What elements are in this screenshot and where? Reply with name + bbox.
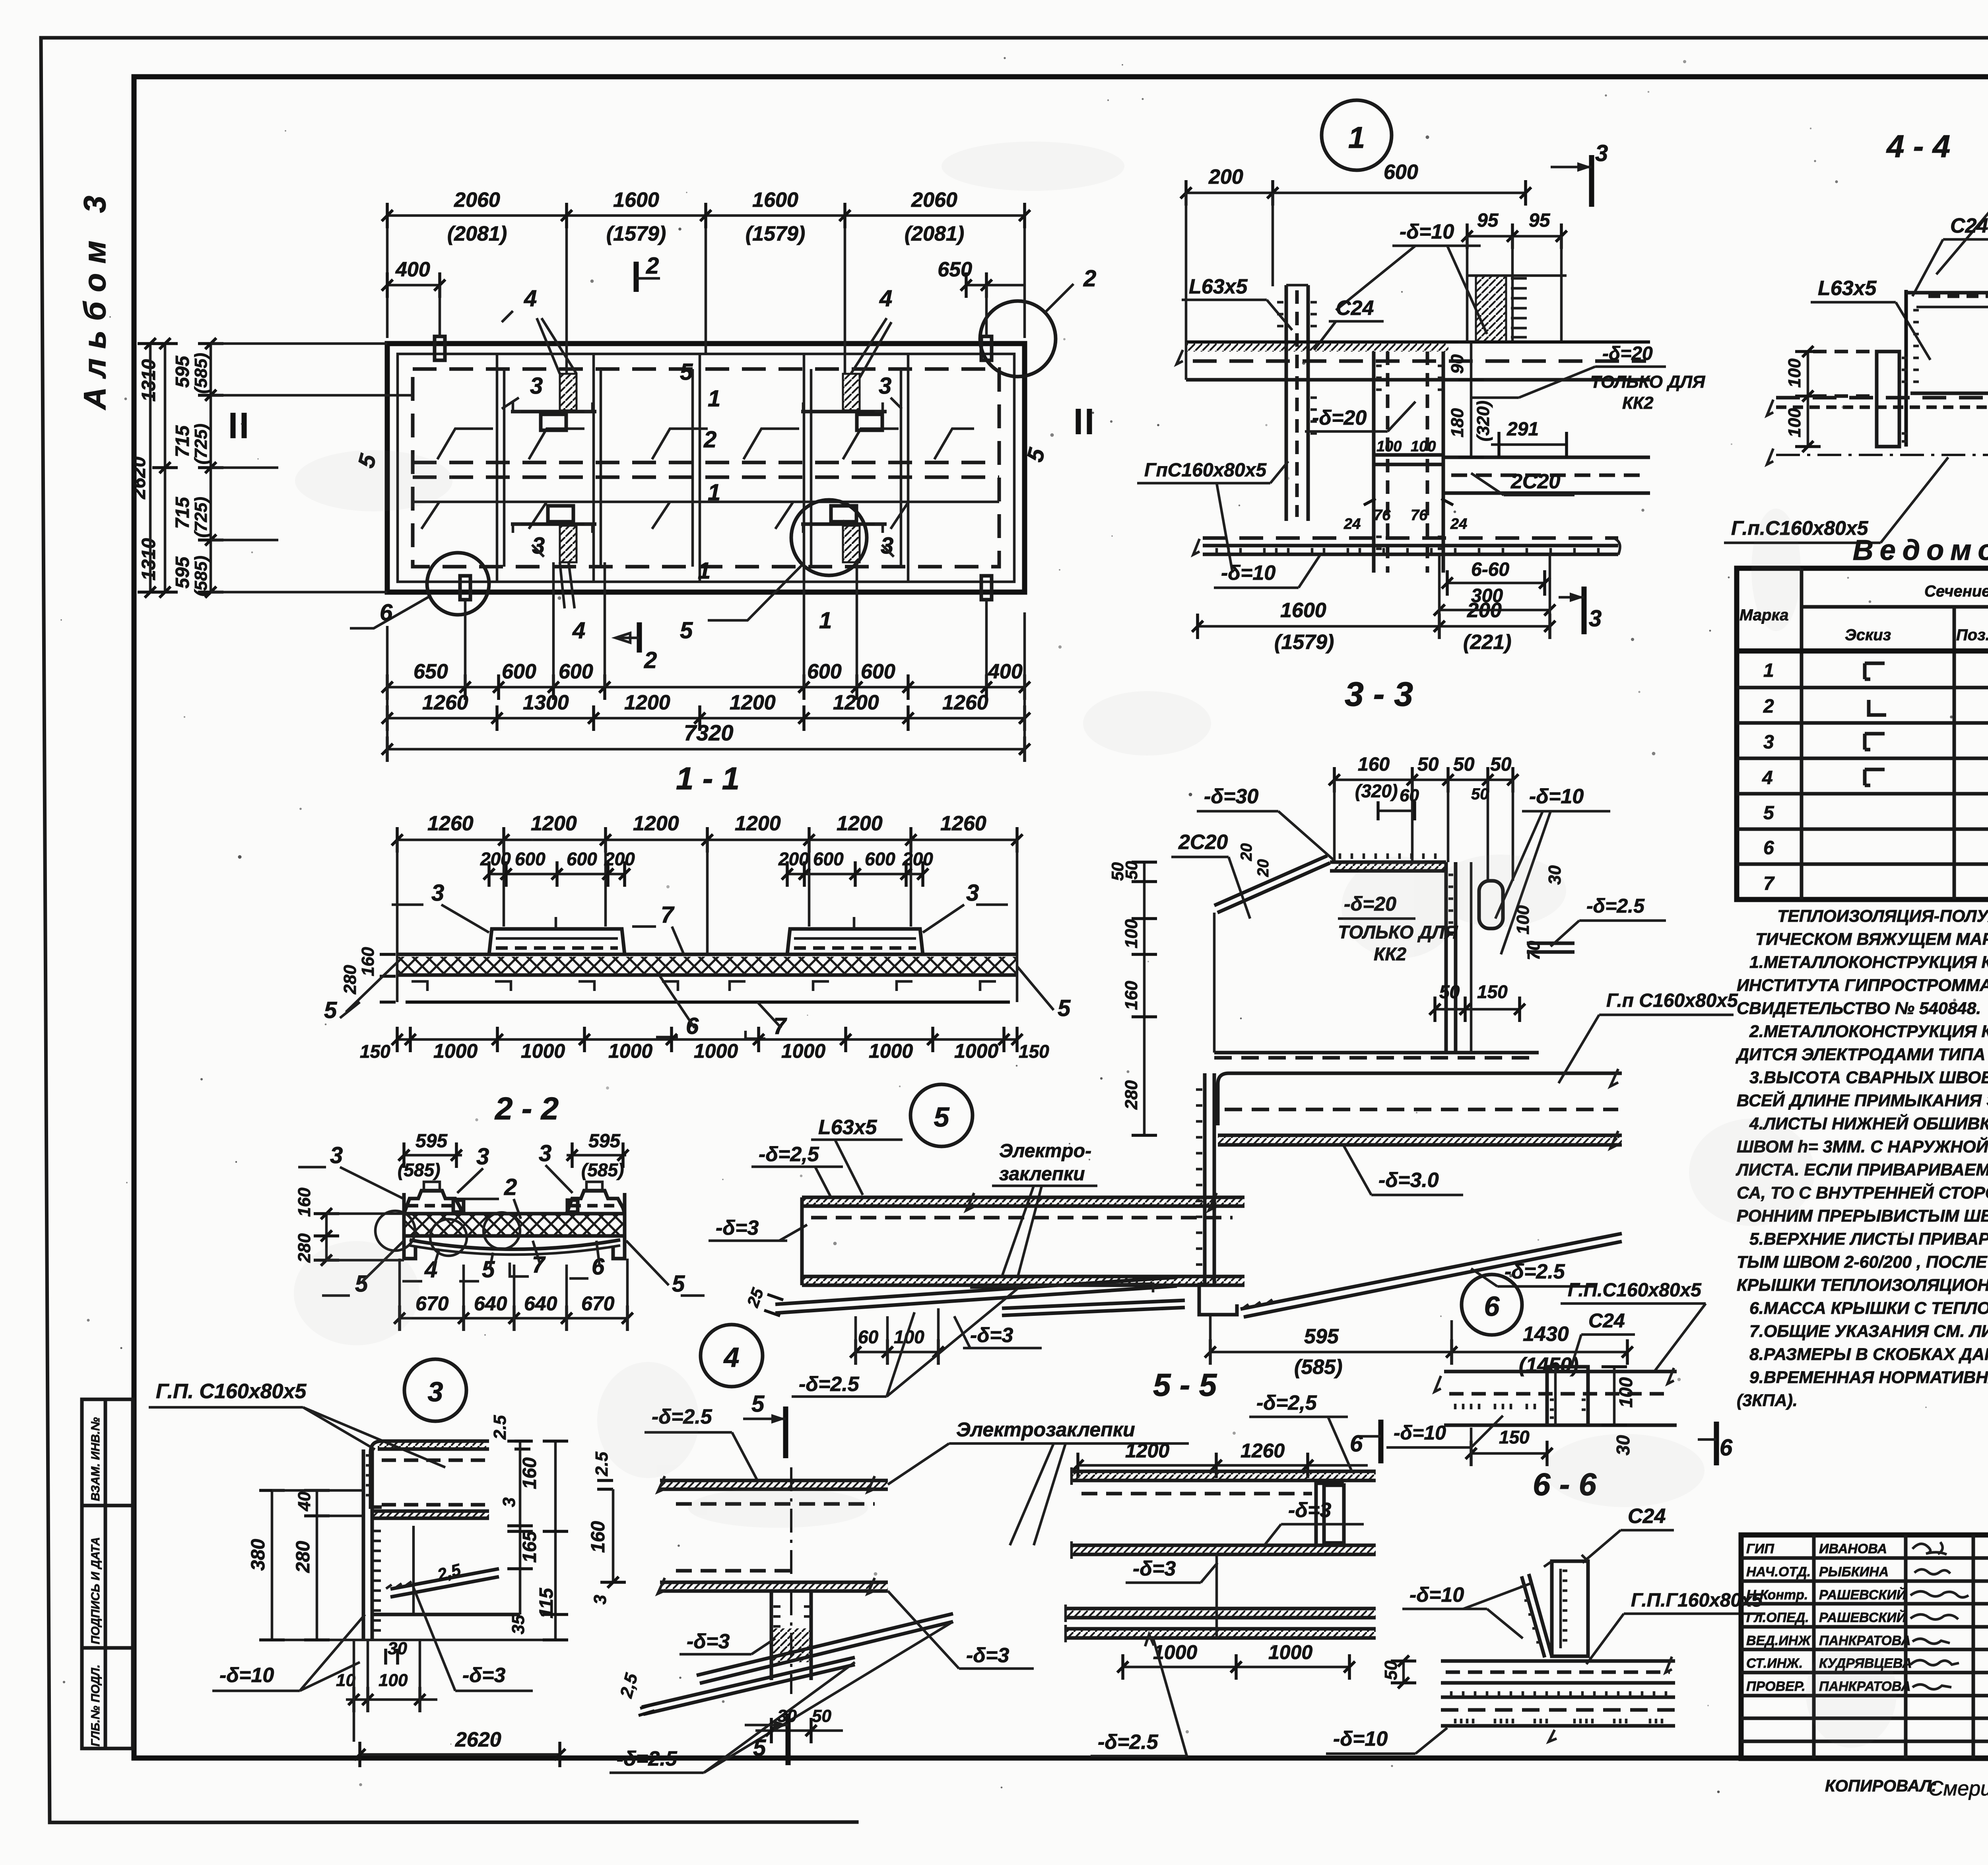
svg-text:60: 60 xyxy=(858,1327,879,1347)
svg-text:-δ=2,5: -δ=2,5 xyxy=(759,1143,819,1166)
second slanted plate xyxy=(642,1657,855,1714)
detail circle 3 xyxy=(404,1359,466,1421)
bottom dim row 1260/1200 xyxy=(382,691,1030,731)
svg-text:Поз.: Поз. xyxy=(1956,626,1988,644)
plan inner rect xyxy=(398,354,1014,582)
small right plate xyxy=(1527,943,1574,952)
horizontal band 6-6 xyxy=(1441,1657,1675,1683)
svg-text:Альбом 3: Альбом 3 xyxy=(77,186,112,410)
detail circle 4 xyxy=(701,1325,763,1387)
svg-text:РЫБКИНА: РЫБКИНА xyxy=(1819,1564,1889,1579)
svg-text:-δ=20: -δ=20 xyxy=(1312,406,1367,429)
svg-text:2: 2 xyxy=(1083,266,1096,291)
svg-text:(320): (320) xyxy=(1474,400,1493,441)
svg-text:-δ=30: -δ=30 xyxy=(1204,785,1258,808)
weld view circles xyxy=(375,1211,415,1251)
svg-text:-δ=10: -δ=10 xyxy=(1400,220,1454,243)
svg-text:L63х5: L63х5 xyxy=(1818,277,1877,300)
svg-text:600: 600 xyxy=(861,660,895,683)
svg-text:20: 20 xyxy=(1254,859,1272,878)
lower plates 5-5 xyxy=(1066,1554,1376,1642)
svg-text:-δ=10: -δ=10 xyxy=(1394,1422,1446,1444)
svg-text:160: 160 xyxy=(1358,754,1390,775)
svg-text:-δ=3: -δ=3 xyxy=(687,1630,730,1653)
svg-text:-δ=2.5: -δ=2.5 xyxy=(617,1747,678,1770)
connector assembly top-left xyxy=(511,318,596,430)
svg-text:Электрозаклепки: Электрозаклепки xyxy=(956,1418,1135,1441)
svg-text:2С20: 2С20 xyxy=(1178,831,1228,854)
svg-text:715: 715 xyxy=(172,497,193,529)
svg-text:ГпС160х80х5: ГпС160х80х5 xyxy=(1144,460,1267,481)
central column xyxy=(1343,352,1467,573)
bottom dim row 150/1000 xyxy=(360,1027,1049,1062)
svg-text:3: 3 xyxy=(476,1144,489,1170)
svg-text:100: 100 xyxy=(1376,438,1402,455)
svg-text:595: 595 xyxy=(172,356,193,388)
mid channel band xyxy=(1218,1069,1622,1148)
svg-text:95: 95 xyxy=(1477,210,1499,231)
left connector hat xyxy=(404,1182,464,1214)
right connector hat xyxy=(567,1182,625,1214)
svg-text:2: 2 xyxy=(504,1174,517,1200)
svg-text:100: 100 xyxy=(1785,358,1804,388)
bottom dims 670/640/640/670 xyxy=(394,1259,633,1331)
svg-text:100: 100 xyxy=(1615,1377,1636,1408)
svg-text:(1579): (1579) xyxy=(745,222,805,245)
svg-text:-δ=3.0: -δ=3.0 xyxy=(1378,1169,1439,1192)
vertical web plate xyxy=(363,1449,381,1640)
svg-text:-δ=2.5: -δ=2.5 xyxy=(1098,1731,1159,1754)
slanted bottom plate xyxy=(775,1277,1177,1313)
top plate xyxy=(658,1476,888,1504)
svg-text:2: 2 xyxy=(644,647,657,673)
svg-text:6-60: 6-60 xyxy=(1471,559,1509,580)
svg-text:200: 200 xyxy=(778,849,809,869)
svg-text:50: 50 xyxy=(1108,862,1127,881)
svg-text:24: 24 xyxy=(1343,516,1361,532)
plan lower chord line xyxy=(413,501,999,503)
svg-text:1: 1 xyxy=(1763,660,1774,681)
svg-text:5: 5 xyxy=(324,997,337,1023)
top band xyxy=(1176,342,1650,380)
svg-text:50: 50 xyxy=(812,1706,831,1726)
svg-text:2 - 2: 2 - 2 xyxy=(494,1091,559,1126)
svg-text:291: 291 xyxy=(1507,419,1539,440)
svg-text:5: 5 xyxy=(482,1257,495,1282)
svg-text:9.ВРЕМЕННАЯ НОРМАТИВНАЯ НАГРУЗ: 9.ВРЕМЕННАЯ НОРМАТИВНАЯ НАГРУЗКА НА КРЫШ… xyxy=(1749,1368,1988,1387)
edge stub bottom-right xyxy=(981,576,992,600)
svg-text:Г.п.С160х80х5: Г.п.С160х80х5 xyxy=(1731,517,1869,539)
svg-text:200: 200 xyxy=(604,849,635,869)
svg-text:L63х5: L63х5 xyxy=(1189,275,1248,298)
edge stub top-right xyxy=(981,336,992,360)
bottom slanted plate xyxy=(1241,1234,1622,1317)
right end cap xyxy=(613,1193,625,1259)
svg-text:200: 200 xyxy=(1208,165,1243,188)
right dim column xyxy=(499,1441,568,1640)
bottom dim row 7320 xyxy=(382,612,1030,762)
svg-text:1200: 1200 xyxy=(837,812,883,835)
svg-text:(2081): (2081) xyxy=(905,222,964,245)
svg-text:160: 160 xyxy=(295,1187,314,1217)
section cut marks 1-1 xyxy=(233,413,244,438)
svg-text:200: 200 xyxy=(1467,599,1502,622)
svg-text:600: 600 xyxy=(807,660,842,683)
svg-text:2С20: 2С20 xyxy=(1510,470,1560,493)
svg-text:670: 670 xyxy=(415,1292,449,1315)
svg-text:5 - 5: 5 - 5 xyxy=(1153,1367,1217,1403)
svg-text:1 - 1: 1 - 1 xyxy=(676,761,740,796)
svg-text:4 - 4: 4 - 4 xyxy=(1886,128,1950,164)
dim row 200/600/600/200 right group xyxy=(778,849,933,887)
svg-text:50: 50 xyxy=(1471,785,1489,803)
svg-text:(585): (585) xyxy=(1294,1356,1342,1379)
plan bay line 4 xyxy=(804,354,811,582)
dim 595 (585) right xyxy=(567,1131,629,1180)
svg-text:6: 6 xyxy=(380,600,393,626)
inner vertical line xyxy=(412,1526,415,1614)
svg-text:Г.п С160х80х5: Г.п С160х80х5 xyxy=(1606,990,1738,1011)
svg-text:600: 600 xyxy=(813,849,844,869)
svg-text:ГЛБ.№ ПОДЛ.: ГЛБ.№ ПОДЛ. xyxy=(89,1665,102,1746)
central vertical element xyxy=(771,1467,811,1694)
svg-text:400: 400 xyxy=(395,258,430,281)
svg-text:-δ=3: -δ=3 xyxy=(716,1216,759,1239)
svg-text:заклепки: заклепки xyxy=(999,1164,1085,1185)
svg-text:160: 160 xyxy=(1122,981,1141,1010)
detail circle 6 xyxy=(1462,1274,1522,1335)
svg-text:2.5: 2.5 xyxy=(490,1415,510,1440)
svg-text:ИВАНОВА: ИВАНОВА xyxy=(1819,1541,1887,1556)
plan bay line 2 xyxy=(594,354,601,582)
svg-text:640: 640 xyxy=(474,1292,507,1315)
svg-text:595: 595 xyxy=(172,556,193,589)
svg-text:90: 90 xyxy=(1448,354,1467,374)
svg-text:1: 1 xyxy=(708,480,720,505)
lower band with angle clips xyxy=(412,981,996,991)
lower plate rows xyxy=(1441,1691,1675,1742)
svg-text:1000: 1000 xyxy=(781,1040,825,1062)
svg-text:1310: 1310 xyxy=(138,538,159,581)
svg-text:Гл.ОПЕД.: Гл.ОПЕД. xyxy=(1746,1610,1809,1625)
section marker 2 bottom xyxy=(615,622,657,673)
weld tick row left part xyxy=(1455,1404,1535,1409)
big slanted plate xyxy=(697,1614,953,1683)
svg-text:-δ=10: -δ=10 xyxy=(1333,1727,1388,1750)
svg-text:380: 380 xyxy=(248,1539,269,1571)
svg-text:150: 150 xyxy=(360,1041,390,1062)
svg-text:1430: 1430 xyxy=(1523,1323,1569,1346)
plan bay line 3 xyxy=(693,354,700,582)
svg-text:Эскиз: Эскиз xyxy=(1845,626,1891,644)
svg-text:-δ=3: -δ=3 xyxy=(462,1664,505,1687)
svg-text:ПРОВЕР.: ПРОВЕР. xyxy=(1746,1679,1806,1694)
dim 160 left rotated xyxy=(588,1489,626,1588)
plan center dashed beam xyxy=(413,461,999,464)
plan small labels xyxy=(353,286,1050,643)
svg-text:76: 76 xyxy=(1374,507,1391,524)
svg-text:5: 5 xyxy=(1058,995,1071,1021)
svg-text:1260: 1260 xyxy=(427,812,474,835)
dims 1600/(1579) 200/(221) xyxy=(1192,554,1555,654)
svg-text:595: 595 xyxy=(588,1131,621,1152)
svg-text:670: 670 xyxy=(581,1292,615,1315)
svg-text:3: 3 xyxy=(539,1140,551,1166)
svg-text:6: 6 xyxy=(1763,837,1774,859)
svg-text:Сечение: Сечение xyxy=(1924,583,1988,600)
svg-text:3: 3 xyxy=(879,373,891,399)
sketch symbols col xyxy=(1865,663,1886,785)
svg-text:3: 3 xyxy=(1763,732,1774,753)
left side stamp xyxy=(82,1399,133,1748)
vertical channel column xyxy=(1277,285,1317,521)
svg-text:ВСЕЙ ДЛИНЕ ПРИМЫКАНИЯ ЭЛЕМЕН: ВСЕЙ ДЛИНЕ ПРИМЫКАНИЯ ЭЛЕМЕНТОВ. xyxy=(1737,1090,1988,1110)
svg-text:600: 600 xyxy=(1384,161,1418,184)
svg-text:ТИЧЕСКОМ ВЯЖУЩЕМ МАРКИ 150;: ТИЧЕСКОМ ВЯЖУЩЕМ МАРКИ 150; h= 160 ПО ГО… xyxy=(1755,930,1988,949)
plan lower diagonal marks xyxy=(421,502,909,529)
svg-text:7: 7 xyxy=(661,902,675,928)
insulation crosshatch band xyxy=(397,957,1017,974)
svg-text:50: 50 xyxy=(1453,754,1475,775)
bottom small dims xyxy=(336,1639,437,1742)
svg-text:(585): (585) xyxy=(191,353,211,394)
svg-text:1000: 1000 xyxy=(521,1040,565,1062)
weld ticks right side xyxy=(374,1531,381,1630)
top box with hatch xyxy=(1214,853,1539,1053)
dims 200 600 xyxy=(1180,161,1531,342)
lower plate xyxy=(658,1571,888,1594)
svg-text:С24: С24 xyxy=(1336,297,1374,320)
dims 1200 1260 xyxy=(1072,1440,1368,1478)
svg-text:100: 100 xyxy=(1785,408,1804,437)
svg-text:1200: 1200 xyxy=(833,691,879,714)
svg-text:(585): (585) xyxy=(581,1160,624,1180)
svg-text:100: 100 xyxy=(1122,919,1141,948)
dim row 200/600/600/200 left group xyxy=(480,849,635,887)
svg-text:-δ=10: -δ=10 xyxy=(1529,785,1584,808)
section mark 5 bottom xyxy=(745,1713,788,1765)
break marks xyxy=(966,1193,1217,1210)
svg-text:1200: 1200 xyxy=(730,691,776,714)
signatures squiggles xyxy=(1910,1542,1969,1689)
svg-text:5: 5 xyxy=(1763,802,1774,824)
bottom sheet curve xyxy=(410,1240,620,1249)
svg-text:НАЧ.ОТД.: НАЧ.ОТД. xyxy=(1746,1564,1811,1579)
top plate 5-5 xyxy=(1072,1467,1376,1494)
svg-text:Н.Контр.: Н.Контр. xyxy=(1746,1587,1808,1603)
svg-text:1260: 1260 xyxy=(1241,1440,1285,1462)
svg-text:1000: 1000 xyxy=(954,1040,998,1062)
svg-text:3: 3 xyxy=(1595,140,1608,166)
svg-text:С24: С24 xyxy=(1628,1505,1666,1528)
top plate strip xyxy=(802,1197,1244,1218)
svg-text:ТЕПЛОИЗОЛЯЦИЯ-ПОЛУЖЕСТКИЕ МИНЕ: ТЕПЛОИЗОЛЯЦИЯ-ПОЛУЖЕСТКИЕ МИНЕРАЛОВАТНЫЕ… xyxy=(1777,907,1988,926)
svg-text:280: 280 xyxy=(1122,1080,1141,1110)
slanted small plate xyxy=(386,1569,499,1597)
dim 100 rotated xyxy=(1602,1367,1636,1455)
svg-text:1000: 1000 xyxy=(608,1040,652,1062)
dims 100 100 left xyxy=(1785,346,1821,452)
svg-text:3: 3 xyxy=(330,1142,343,1168)
element list table xyxy=(1737,534,1988,899)
svg-text:180: 180 xyxy=(1448,408,1467,437)
svg-text:95: 95 xyxy=(1529,210,1551,231)
svg-text:50: 50 xyxy=(1439,981,1460,1002)
svg-text:1000: 1000 xyxy=(433,1040,478,1062)
svg-text:595: 595 xyxy=(1304,1325,1339,1348)
svg-text:(585): (585) xyxy=(191,556,211,596)
plan bay line 1 xyxy=(497,354,504,582)
section mark 5 top xyxy=(743,1391,786,1458)
svg-text:5: 5 xyxy=(753,1735,766,1761)
lower hatched strip xyxy=(1218,1136,1622,1145)
svg-text:600: 600 xyxy=(502,660,536,683)
svg-text:115: 115 xyxy=(536,1587,557,1618)
svg-text:3: 3 xyxy=(530,373,543,399)
svg-text:1600: 1600 xyxy=(1280,599,1326,622)
bottom band node1 xyxy=(1193,538,1620,555)
svg-text:200: 200 xyxy=(480,849,511,869)
svg-text:ВЗАМ. ИНВ.№: ВЗАМ. ИНВ.№ xyxy=(89,1417,102,1501)
svg-text:150: 150 xyxy=(1019,1041,1049,1062)
svg-text:280: 280 xyxy=(293,1541,314,1573)
svg-text:-δ=10: -δ=10 xyxy=(1221,561,1276,585)
svg-text:-δ=3: -δ=3 xyxy=(1288,1499,1331,1522)
svg-text:3: 3 xyxy=(428,1376,443,1407)
left dim col 2620 xyxy=(128,338,163,598)
svg-text:СВИДЕТЕЛЬСТВО № 540848.: СВИДЕТЕЛЬСТВО № 540848. xyxy=(1737,999,1981,1018)
svg-text:595: 595 xyxy=(415,1131,448,1152)
svg-text:L63х5: L63х5 xyxy=(818,1116,878,1139)
right mid band xyxy=(1443,457,1650,493)
svg-text:280: 280 xyxy=(340,965,360,995)
svg-text:Ведомость элементов: Ведомость элементов xyxy=(1853,534,1988,566)
left vertical plate xyxy=(1196,1073,1237,1315)
channel box xyxy=(1544,1555,1588,1656)
svg-text:4: 4 xyxy=(723,1342,740,1373)
svg-text:(3КПА).: (3КПА). xyxy=(1737,1391,1798,1410)
svg-text:1.МЕТАЛЛОКОНСТРУКЦИЯ КРЫШКИ РА: 1.МЕТАЛЛОКОНСТРУКЦИЯ КРЫШКИ РАЗРАБОТАНА … xyxy=(1749,953,1988,972)
svg-text:(1579): (1579) xyxy=(606,222,666,245)
edge stub top-left xyxy=(435,336,445,360)
svg-text:20: 20 xyxy=(1238,843,1255,862)
left dim col 3-3 xyxy=(1108,861,1157,1135)
svg-text:7: 7 xyxy=(532,1252,546,1278)
dim row 1260/1200 xyxy=(392,812,1023,954)
svg-text:С24: С24 xyxy=(1950,214,1988,237)
section mark 3 top xyxy=(1551,140,1608,207)
svg-text:КРЫШКИ ТЕПЛОИЗОЛЯЦИОННЫМ МАТЕР: КРЫШКИ ТЕПЛОИЗОЛЯЦИОННЫМ МАТЕРИАЛОМ. xyxy=(1737,1276,1988,1295)
svg-text:(2081): (2081) xyxy=(447,222,507,245)
svg-text:50: 50 xyxy=(1417,754,1439,775)
svg-text:3: 3 xyxy=(431,880,444,906)
svg-text:1000: 1000 xyxy=(1268,1641,1312,1663)
dims 50 150 xyxy=(1429,981,1525,1022)
svg-text:4: 4 xyxy=(879,286,892,311)
svg-text:-δ=2,5: -δ=2,5 xyxy=(1256,1391,1317,1414)
svg-text:Смерцов: Смерцов xyxy=(1928,1777,1988,1800)
section mark 3 bottom xyxy=(1559,587,1602,634)
svg-text:КК2: КК2 xyxy=(1622,393,1654,413)
connector assembly top-right xyxy=(801,318,891,430)
svg-text:1600: 1600 xyxy=(752,188,798,212)
dim 50 rotated xyxy=(1381,1655,1416,1688)
plan bay line 5 xyxy=(901,354,908,582)
detail circle 1 big xyxy=(1322,100,1392,170)
svg-text:50: 50 xyxy=(1490,754,1512,775)
svg-text:2: 2 xyxy=(703,427,716,453)
svg-text:2060: 2060 xyxy=(454,188,500,212)
connector assembly bottom-left xyxy=(511,506,596,608)
body 4-4 xyxy=(1906,282,1988,447)
svg-text:1260: 1260 xyxy=(942,691,988,714)
svg-text:150: 150 xyxy=(1499,1427,1530,1447)
svg-text:ТОЛЬКО ДЛЯ: ТОЛЬКО ДЛЯ xyxy=(1590,372,1705,392)
plan dashed inner rect xyxy=(413,369,999,567)
svg-text:1310: 1310 xyxy=(138,359,159,402)
slot column xyxy=(1471,862,1565,1053)
lid body: top line xyxy=(397,953,1017,956)
left dims 160/280 xyxy=(295,1187,404,1266)
svg-text:-δ=10: -δ=10 xyxy=(219,1664,274,1687)
svg-text:ВЕД.ИНЖ: ВЕД.ИНЖ xyxy=(1746,1633,1811,1648)
svg-text:-δ=2.5: -δ=2.5 xyxy=(1505,1260,1565,1283)
dims 95 95 xyxy=(1462,210,1567,342)
svg-text:400: 400 xyxy=(988,660,1023,683)
svg-text:50: 50 xyxy=(1381,1661,1401,1680)
bottom dim row 650/600 xyxy=(382,562,1030,700)
svg-text:100: 100 xyxy=(379,1671,408,1690)
svg-text:-δ=20: -δ=20 xyxy=(1602,343,1653,364)
svg-text:ТЫМ ШВОМ 2-60/200 , ПОСЛЕ ПОЛН: ТЫМ ШВОМ 2-60/200 , ПОСЛЕ ПОЛНОГО ЗАПОЛН… xyxy=(1737,1253,1988,1272)
dims 1000 1000 xyxy=(1117,1641,1355,1680)
vertical dims 90/180/(320) xyxy=(1448,342,1493,457)
insulation band 2-2 xyxy=(404,1214,625,1236)
svg-text:1: 1 xyxy=(819,608,832,633)
svg-text:ГИП: ГИП xyxy=(1746,1541,1774,1556)
svg-text:4: 4 xyxy=(1762,767,1773,789)
plan outer rect xyxy=(387,344,1025,592)
body band xyxy=(1435,1367,1677,1425)
svg-text:-δ=10: -δ=10 xyxy=(1409,1583,1464,1607)
edge stub bottom-left xyxy=(460,576,470,600)
svg-text:3: 3 xyxy=(499,1498,519,1507)
svg-text:Г.П.С160х80х5: Г.П.С160х80х5 xyxy=(1568,1280,1702,1301)
dim 650 top-right xyxy=(938,258,1025,336)
svg-text:76: 76 xyxy=(1411,507,1428,524)
svg-text:1200: 1200 xyxy=(735,812,781,835)
mid plate 5-5 xyxy=(1072,1541,1376,1559)
small slanted plate right xyxy=(1002,1300,1185,1315)
svg-text:6: 6 xyxy=(1720,1435,1733,1461)
svg-text:24: 24 xyxy=(1450,516,1467,532)
slanted plate 6-6 xyxy=(1522,1574,1552,1657)
svg-text:5: 5 xyxy=(934,1102,950,1133)
detail circle 1 xyxy=(791,500,867,575)
left dim col 595/715 xyxy=(172,338,413,598)
svg-text:-δ=2.5: -δ=2.5 xyxy=(1586,895,1645,917)
center box C24 xyxy=(1547,1367,1588,1425)
svg-text:160: 160 xyxy=(519,1457,540,1489)
svg-text:1260: 1260 xyxy=(422,691,468,714)
svg-text:2: 2 xyxy=(1763,696,1774,717)
plan slash symbols row xyxy=(437,429,974,459)
svg-text:2: 2 xyxy=(646,253,659,279)
svg-text:2620: 2620 xyxy=(128,457,149,499)
svg-text:650: 650 xyxy=(938,258,972,281)
hatched plate column (top right) xyxy=(1467,276,1567,342)
svg-text:165: 165 xyxy=(519,1531,540,1563)
